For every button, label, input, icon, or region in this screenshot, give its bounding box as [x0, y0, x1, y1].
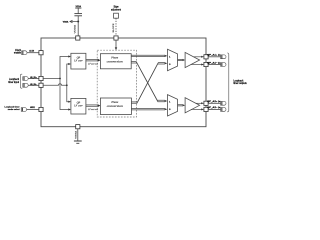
dashed wire from slope square to pad: [115, 18, 117, 36]
svg-text:QP_A2+ (x: QP_A2+ (x: [207, 100, 221, 103]
svg-text:LF corr: LF corr: [73, 105, 84, 108]
double wire: phase2 diagonal up to mux1 input B: [131, 63, 164, 104]
svg-text:conversion: conversion: [107, 105, 124, 108]
double wire QP1 to phase conversion 1: [86, 60, 98, 61]
svg-text:CLK_EN: CLK_EN: [29, 51, 34, 53]
capacitor C1: [74, 14, 82, 16]
svg-text:VSSA: VSSA: [75, 130, 78, 139]
wire bus2 (vertical): [67, 64, 69, 102]
svg-text:0: 0: [169, 109, 170, 111]
wire pad OUT1- to pin: [208, 64, 221, 66]
arrowheads into QP block 2: [68, 101, 71, 103]
double wire: phase1 diagonal down to mux2 input A: [131, 62, 165, 102]
double wire QP2 to phase conversion 2: [86, 105, 98, 106]
wire pad OUT1+ to pin: [208, 56, 221, 58]
pad: OUT2-: [204, 107, 208, 111]
pad: slope pin on top edge: [114, 36, 118, 40]
pin: loopback input -: [23, 83, 28, 87]
pad: OUT1-: [204, 62, 208, 66]
pad: loopback input -: [39, 83, 43, 87]
wire pad OUT2+ to pin: [208, 102, 221, 104]
mux 1 (top selector trapezoid): [168, 49, 178, 70]
driver2 output - wire and arrowhead: [191, 108, 202, 110]
svg-text:LB_IN+: LB_IN+: [30, 77, 38, 79]
wire pad to ground: [77, 129, 79, 141]
driver amp 2 (triangle): [185, 98, 200, 113]
svg-text:timer outputs: timer outputs: [233, 82, 247, 85]
driver1 output - wire and arrowhead: [191, 64, 202, 66]
svg-text:MODE: MODE: [30, 107, 35, 109]
pad: supply pin on top edge: [76, 36, 80, 40]
svg-text:QP_A1+ (x: QP_A1+ (x: [207, 54, 221, 57]
wire: cap to junction to pad: [77, 16, 79, 38]
svg-text:enable: enable: [14, 52, 22, 55]
svg-text:VSSA: VSSA: [63, 21, 69, 24]
ground symbol: [74, 141, 82, 143]
svg-text:timer input: timer input: [8, 81, 19, 84]
arrowheads into QP block 1: [68, 55, 71, 57]
wire pad OUT2- to pin: [208, 108, 221, 110]
pad: loopback input +: [39, 76, 43, 80]
wire from pad LB- with hop over bus1 to bus2: [43, 84, 67, 86]
power rail symbol (top): [75, 8, 81, 13]
svg-text:SLOPE: SLOPE: [113, 23, 115, 33]
pad: OUT1+: [204, 55, 208, 59]
pin: OUT2-: [221, 108, 226, 112]
phase conversion block 1: [100, 54, 131, 69]
mux 2 (bottom selector trapezoid): [168, 95, 178, 116]
svg-text:mode select: mode select: [8, 108, 20, 111]
driver2 output + wire and arrowhead: [196, 102, 202, 104]
wire from pad LB+ to bus1: [43, 78, 60, 80]
double wire: phase1 straight to mux1 input A: [131, 55, 165, 56]
svg-text:QP_A2− (x: QP_A2− (x: [207, 106, 221, 109]
svg-text:Phase: Phase: [110, 101, 119, 104]
pad: OUT2+: [204, 101, 208, 105]
pad: mode select: [39, 107, 43, 111]
arrow from slope pad into phase conversion: [115, 40, 117, 48]
pin: OUT2+: [221, 101, 226, 105]
pad: clock enable: [39, 51, 43, 55]
QP LF corr block 2: [71, 98, 86, 114]
wire bus1 (vertical) with taps into QP blocks: [60, 57, 69, 110]
node junction: [77, 21, 79, 23]
driver amp 1 (triangle): [185, 52, 200, 67]
QP LF corr block 1: [71, 53, 86, 69]
svg-text:VDDA: VDDA: [74, 24, 77, 33]
dashed group box around phase conversion: [97, 50, 136, 117]
double wire: phase2 straight to mux2 input B: [131, 109, 164, 110]
phase conversion block 2: [100, 98, 131, 115]
slope adjustment external component square: [114, 13, 119, 18]
svg-text:LF corr: LF corr: [73, 60, 84, 63]
svg-text:conversion: conversion: [107, 61, 124, 64]
outer IC boundary box: [41, 38, 206, 127]
svg-text:1: 1: [169, 101, 170, 103]
svg-text:Loopback: Loopback: [9, 79, 20, 81]
svg-text:LB_IN−: LB_IN−: [30, 84, 38, 86]
pin: loopback input +: [23, 77, 28, 81]
svg-text:QP_A1− (x: QP_A1− (x: [207, 61, 221, 64]
arrow to internal supply (left): [70, 20, 78, 23]
double wire mux2 to driver 2: [178, 105, 183, 106]
pin: OUT1-: [221, 63, 226, 67]
svg-text:Phase: Phase: [110, 57, 119, 60]
double wire mux1 to driver 1: [178, 59, 183, 60]
pad: ground pin on bottom edge: [76, 125, 80, 129]
svg-text:1: 1: [169, 56, 170, 58]
bracket grouping output pins: [227, 53, 229, 112]
driver1 output + wire and arrowhead: [194, 56, 202, 58]
svg-text:VDDA: VDDA: [75, 5, 81, 8]
svg-text:Loopback: Loopback: [233, 80, 244, 82]
svg-text:adjustment: adjustment: [111, 7, 121, 11]
bracket grouping loopback input pins: [20, 74, 22, 88]
pin: OUT1+: [221, 55, 226, 59]
svg-text:0: 0: [169, 64, 170, 66]
